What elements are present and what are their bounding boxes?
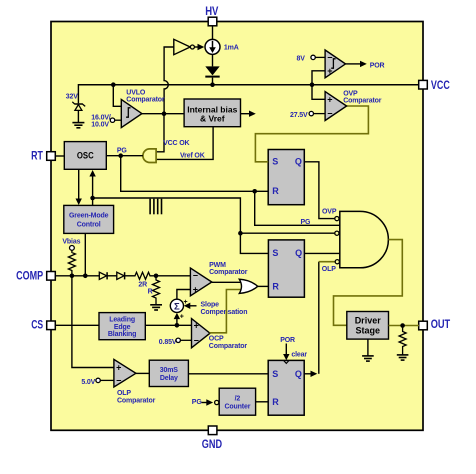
op-amp POR comparator <box>325 50 345 78</box>
svg-text:+: + <box>327 66 332 76</box>
wire RT to OSC <box>55 155 64 157</box>
resistor OUT pulldown <box>399 326 406 355</box>
wire rail to zener <box>77 84 79 103</box>
svg-text:UVLO: UVLO <box>126 89 146 96</box>
wire latch2 Q to AND <box>304 252 339 254</box>
svg-text:30mS: 30mS <box>160 367 179 374</box>
wire Driver Stage to OUT <box>389 325 420 327</box>
label OLP Comparator <box>117 390 156 404</box>
wire COMP line <box>55 275 99 277</box>
resistor Vbias <box>68 250 75 275</box>
svg-text:+: + <box>180 313 184 320</box>
node green-mode AND branch <box>238 231 243 236</box>
arrow OSC to Green-Mode <box>76 169 82 205</box>
svg-text:Vbias: Vbias <box>62 238 80 245</box>
wire current source to diode <box>212 54 214 66</box>
terminal 0.85V <box>159 338 192 346</box>
svg-text:& Vref: & Vref <box>200 114 225 124</box>
ground driver <box>362 356 374 361</box>
svg-text:CS: CS <box>31 319 43 331</box>
svg-text:HV: HV <box>205 6 218 18</box>
wire OLP net vertical <box>318 262 320 374</box>
latch SR1 <box>268 150 304 205</box>
bubble OLP input <box>335 260 339 264</box>
svg-text:/2: /2 <box>235 396 241 403</box>
node GMC comp <box>83 274 88 279</box>
wire UVLO output to bias box <box>142 113 184 115</box>
latch SR2 <box>268 240 304 297</box>
svg-text:Comparator: Comparator <box>126 97 165 104</box>
block Internal bias & Vref <box>184 99 240 127</box>
svg-text:−: − <box>194 335 199 345</box>
wire PG gate output to OSC <box>106 155 143 157</box>
wire CS line <box>55 324 99 326</box>
terminal 16.0V/10.0V <box>91 114 121 128</box>
svg-text:Comparator: Comparator <box>209 343 248 350</box>
wire diode to 2R <box>125 275 134 277</box>
label OCP Comparator <box>209 336 248 350</box>
resistor 2R <box>134 272 157 279</box>
svg-text:RT: RT <box>31 151 43 163</box>
block Driver Stage <box>347 312 389 340</box>
pin RT <box>31 151 55 163</box>
gate AND main <box>340 211 389 267</box>
wire counter to latch3 R <box>256 401 269 403</box>
node UVLO output junction <box>162 111 167 116</box>
wire OVP comp output to latch1 S <box>255 106 368 162</box>
svg-text:OVP: OVP <box>343 90 358 97</box>
label OVP Comparator <box>343 90 382 104</box>
wire diode to VCC rail <box>212 78 214 85</box>
diode D1 <box>205 66 219 77</box>
svg-text:2R: 2R <box>138 282 147 289</box>
wire AND output to Driver Stage <box>334 240 403 326</box>
arrow PG to counter <box>202 399 219 405</box>
svg-text:VCC OK: VCC OK <box>163 140 189 147</box>
svg-text:−: − <box>327 109 332 119</box>
svg-text:Green-Mode: Green-Mode <box>69 212 109 219</box>
svg-text:S: S <box>272 248 278 258</box>
op-amp OLP comparator <box>114 359 136 387</box>
op-amp OCP comparator <box>192 319 211 348</box>
op-amp PWM comparator <box>190 268 211 296</box>
pin HV <box>205 6 218 26</box>
block Green-Mode Control <box>64 205 114 233</box>
terminal 27.5V <box>290 111 325 118</box>
wire sigma to PWM plus <box>177 290 191 300</box>
gate OR <box>239 279 257 293</box>
arrow POR to latch3 clear <box>283 344 307 361</box>
wire latch1 Q to AND OVP input <box>304 162 335 219</box>
svg-text:Control: Control <box>77 221 101 228</box>
svg-text:COMP: COMP <box>16 271 43 283</box>
terminal Vbias <box>62 238 80 250</box>
svg-text:PG: PG <box>192 399 203 406</box>
pin COMP <box>16 271 55 283</box>
svg-text:PWM: PWM <box>209 262 226 269</box>
wire UVLO plus input <box>113 85 121 107</box>
node OUT resistor <box>400 323 405 328</box>
svg-text:R: R <box>272 281 279 291</box>
svg-text:1mA: 1mA <box>224 44 239 51</box>
wire OR to latch2 R <box>257 285 269 287</box>
gate AND PG (points left) <box>143 149 156 163</box>
op-amp OVP comparator <box>325 92 347 121</box>
terminal 5.0V <box>81 378 114 386</box>
wire OLP to delay <box>136 372 149 374</box>
svg-text:GND: GND <box>202 439 222 451</box>
resistor R <box>153 276 160 305</box>
svg-text:VCC: VCC <box>431 80 450 92</box>
svg-text:Blanking: Blanking <box>108 331 136 338</box>
label PWM Comparator <box>209 262 248 276</box>
node sigma CS junction <box>175 323 180 328</box>
node diode-rail <box>210 82 215 87</box>
inverter U2 <box>174 39 195 54</box>
latch SR3 <box>268 360 304 415</box>
svg-text:−: − <box>116 375 121 385</box>
wire to latch2 S <box>240 233 268 253</box>
svg-text:Comparator: Comparator <box>209 269 248 276</box>
IC boundary box <box>51 22 423 431</box>
block OSC <box>64 142 106 170</box>
wire driver ground <box>367 339 369 356</box>
svg-text:5.0V: 5.0V <box>81 379 95 386</box>
node 2R junction <box>154 274 159 279</box>
block Leading Edge Blanking <box>99 313 145 340</box>
arrow inverter to current source <box>194 44 204 50</box>
ground R <box>150 305 162 310</box>
svg-text:0.85V: 0.85V <box>159 339 177 346</box>
svg-text:clear: clear <box>291 352 307 359</box>
wire OLP horizontal <box>319 261 335 263</box>
wire VCC OK <box>156 114 164 152</box>
svg-text:Edge: Edge <box>114 324 131 331</box>
wire delay to latch3 S <box>188 373 268 375</box>
op-amp UVLO comparator <box>121 100 142 128</box>
wire HV to current source <box>212 26 214 40</box>
svg-text:+: + <box>327 94 332 104</box>
svg-text:Compensation: Compensation <box>201 309 248 316</box>
svg-text:Q: Q <box>295 248 302 258</box>
bubble green-mode input <box>335 231 339 235</box>
diode D2 <box>99 272 107 279</box>
ground OUT resistor <box>397 355 409 360</box>
wire zener to ground <box>77 110 79 122</box>
svg-text:Driver: Driver <box>355 315 382 325</box>
svg-text:Leading: Leading <box>109 317 135 324</box>
svg-text:Comparator: Comparator <box>117 397 156 404</box>
svg-text:8V: 8V <box>297 56 306 63</box>
wire 2R junction to PWM minus <box>156 275 190 277</box>
node UVLO branch <box>111 82 116 87</box>
wire VCC rail <box>78 84 419 86</box>
svg-text:27.5V: 27.5V <box>290 112 308 119</box>
wire COMP to OLP comparator <box>72 276 114 368</box>
wire between diodes <box>107 275 117 277</box>
svg-text:Counter: Counter <box>225 404 251 411</box>
svg-text:R: R <box>148 289 153 296</box>
svg-text:POR: POR <box>370 62 385 69</box>
svg-text:Σ: Σ <box>174 302 180 313</box>
svg-text:S: S <box>272 369 278 379</box>
arrow slope compensation <box>184 299 197 309</box>
arrow POR output <box>346 61 385 70</box>
svg-text:Q: Q <box>295 369 302 379</box>
svg-text:OVP: OVP <box>322 208 337 215</box>
block 30mS Delay <box>149 360 188 386</box>
wire OVP plus from rail <box>312 85 325 100</box>
current source I1 1mA <box>205 39 220 54</box>
svg-text:R: R <box>272 397 279 407</box>
pin CS <box>31 319 55 331</box>
svg-text:OLP: OLP <box>322 266 336 273</box>
node PG <box>118 153 123 158</box>
node POR/OVP branch <box>310 82 315 87</box>
svg-text:Slope: Slope <box>201 302 220 309</box>
svg-text:POR: POR <box>280 337 295 344</box>
svg-text:+: + <box>194 320 199 330</box>
svg-text:OCP: OCP <box>209 336 224 343</box>
svg-text:−: − <box>327 52 332 62</box>
terminal 8V <box>297 55 326 62</box>
bubble OVP input <box>335 217 339 221</box>
wire PWM output to OR gate <box>212 281 242 283</box>
node Vbias comp <box>70 274 75 279</box>
svg-text:OSC: OSC <box>77 151 94 162</box>
burst comb symbol <box>150 199 161 215</box>
svg-text:Delay: Delay <box>160 375 178 382</box>
wire POR plus from rail <box>312 71 325 85</box>
arrow latch3 Q to OLP net <box>304 371 317 377</box>
wire inverter input <box>164 47 174 114</box>
wire Vref OK <box>156 127 213 160</box>
pin GND <box>202 426 222 451</box>
svg-text:Vref OK: Vref OK <box>180 152 205 159</box>
svg-text:10.0V: 10.0V <box>91 122 109 129</box>
svg-text:OUT: OUT <box>431 319 451 331</box>
wire LEB to OCP <box>145 324 191 326</box>
svg-text:OLP: OLP <box>117 390 131 397</box>
node green-mode branch <box>90 196 95 201</box>
node PG latch1 R branch <box>252 189 257 194</box>
zener Z1 32V <box>72 102 85 111</box>
wire PG net down-right to latch1 R <box>121 156 269 192</box>
arrow CS into sigma <box>174 313 184 326</box>
svg-text:+: + <box>116 363 121 373</box>
wire PG branch to AND gate <box>255 191 340 225</box>
svg-text:32V: 32V <box>66 93 78 100</box>
ground zener <box>72 123 84 128</box>
wire Green-Mode to COMP line <box>84 233 86 275</box>
pin VCC <box>419 80 450 92</box>
svg-text:Stage: Stage <box>355 325 380 335</box>
arrow bias output <box>241 111 256 117</box>
label UVLO Comparator <box>126 89 165 103</box>
svg-text:Q: Q <box>295 156 302 166</box>
svg-text:S: S <box>272 156 278 166</box>
diode D3 <box>117 272 125 279</box>
arrow Green-Mode to OSC <box>89 170 95 205</box>
svg-text:−: − <box>193 271 198 281</box>
svg-text:PG: PG <box>301 219 312 226</box>
svg-text:Comparator: Comparator <box>343 98 382 105</box>
summer sigma <box>170 299 183 312</box>
wire OCP output to OR gate <box>210 290 241 333</box>
block /2 Counter <box>219 388 255 415</box>
svg-text:+: + <box>184 299 188 306</box>
wire green-mode net to AND and latch2 S <box>93 198 335 233</box>
pin OUT <box>419 319 451 331</box>
svg-text:16.0V/: 16.0V/ <box>91 114 111 121</box>
svg-text:PG: PG <box>117 148 128 155</box>
svg-text:R: R <box>272 186 279 196</box>
svg-text:+: + <box>193 285 198 295</box>
label Slope Compensation <box>201 302 248 316</box>
